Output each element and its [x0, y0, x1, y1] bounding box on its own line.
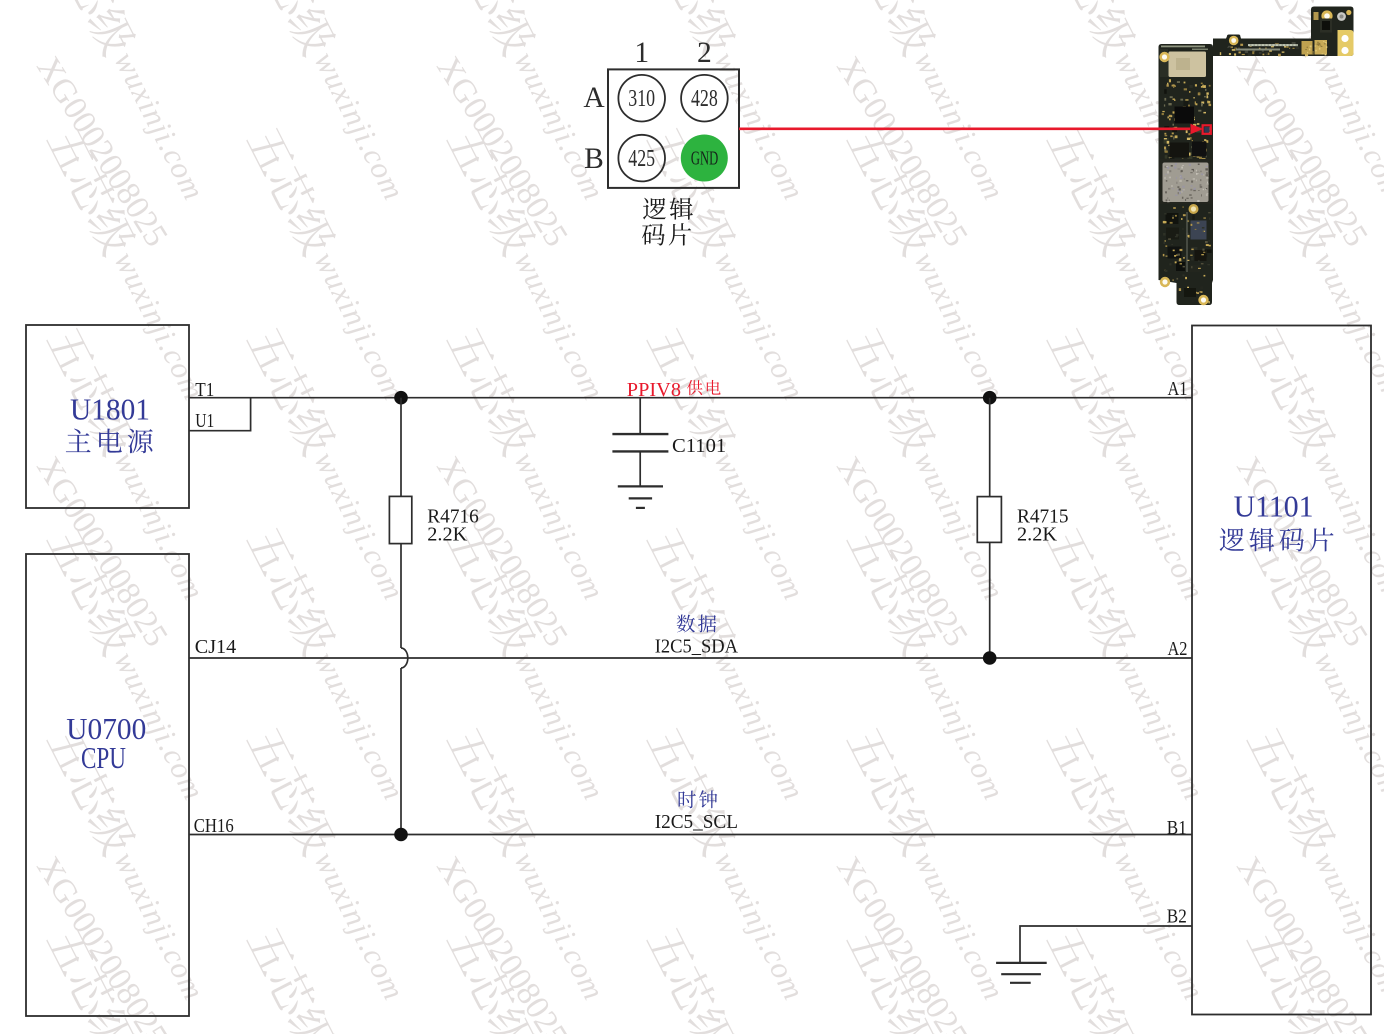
junction node SDA / R4715	[983, 651, 997, 665]
junction node at R4715 top	[983, 391, 997, 405]
svg-text:T1: T1	[195, 380, 214, 401]
svg-text:CJ14: CJ14	[195, 637, 237, 658]
svg-text:B1: B1	[1167, 818, 1187, 839]
IC U0700 CPU box	[26, 554, 189, 1016]
IC U1801 main power box	[26, 325, 189, 508]
svg-text:2.2K: 2.2K	[427, 525, 467, 546]
wire hop over SDA line	[401, 648, 408, 668]
ground symbol under C1101	[618, 486, 663, 508]
svg-text:C1101: C1101	[672, 436, 726, 457]
ground symbol at B2	[996, 963, 1047, 983]
net label 时钟 (clock)	[679, 790, 718, 808]
svg-text:A: A	[583, 82, 605, 114]
svg-text:A1: A1	[1168, 379, 1188, 400]
svg-text:B: B	[584, 143, 604, 175]
pad A1 310	[618, 75, 665, 122]
svg-text:2.2K: 2.2K	[1017, 525, 1057, 546]
svg-text:310: 310	[628, 85, 655, 112]
svg-text:U1: U1	[195, 411, 214, 432]
net label 数据 (data)	[677, 615, 717, 633]
wire PPIV8 power rail T1 to A1	[189, 397, 1192, 399]
junction node at R4716 top	[394, 391, 408, 405]
svg-text:CPU: CPU	[81, 740, 126, 775]
label 码片 (chip)	[642, 223, 691, 245]
svg-text:U1101: U1101	[1234, 488, 1314, 523]
label 主电源 (main power)	[66, 428, 153, 453]
junction node SCL / R4716	[394, 828, 408, 842]
pad A2 428	[681, 75, 728, 122]
IC U1101 logic chip box	[1192, 326, 1371, 1015]
wire I2C5_SCL CH16 to B1	[189, 834, 1192, 836]
svg-text:GND: GND	[691, 148, 718, 169]
PCB motherboard photo (top right)	[1159, 7, 1354, 306]
svg-text:CH16: CH16	[194, 816, 234, 837]
label 逻辑 (logic)	[643, 197, 693, 219]
pad B1 425	[618, 135, 665, 182]
svg-text:428: 428	[691, 85, 718, 112]
svg-text:U1801: U1801	[70, 392, 150, 427]
pin stub U1	[189, 398, 251, 431]
capacitor C1101	[612, 398, 668, 487]
svg-text:PPIV8: PPIV8	[627, 380, 681, 401]
red arrow from pinout to PCB location	[739, 124, 1203, 134]
svg-text:A2: A2	[1168, 639, 1188, 660]
svg-text:425: 425	[628, 145, 655, 172]
wire I2C5_SDA CJ14 to A2	[189, 657, 1192, 659]
label 逻辑码片 (logic chip)	[1220, 528, 1334, 552]
svg-text:B2: B2	[1167, 907, 1187, 928]
resistor R4715 2.2K	[977, 398, 1001, 658]
pad B2 GND (ground pad)	[681, 135, 728, 182]
wire B2 to ground	[1020, 926, 1192, 963]
svg-text:1: 1	[634, 37, 649, 69]
svg-text:I2C5_SCL: I2C5_SCL	[655, 812, 738, 833]
wire from hop down to SCL junction	[400, 668, 402, 835]
red target rectangle on PCB	[1203, 125, 1211, 134]
svg-text:I2C5_SDA: I2C5_SDA	[655, 636, 738, 657]
resistor R4716 2.2K	[389, 398, 411, 648]
pinout box of logic chip pads	[608, 69, 739, 187]
svg-text:2: 2	[697, 37, 712, 69]
